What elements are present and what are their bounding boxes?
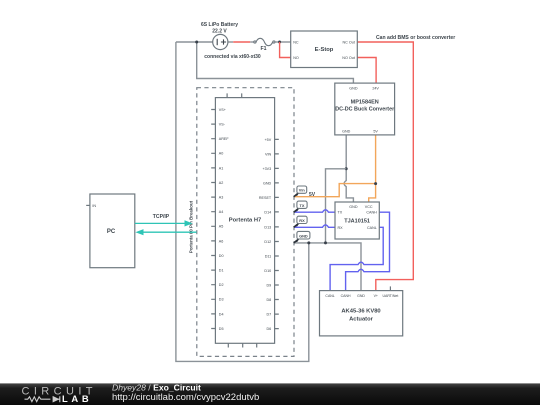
node: GND rail junction (outer loop) bbox=[307, 241, 310, 244]
actuator M1: AK45-36 KV80 bbox=[320, 286, 403, 336]
svg-text:A6: A6 bbox=[219, 239, 224, 243]
svg-text:NC: NC bbox=[293, 41, 299, 45]
svg-text:D6: D6 bbox=[266, 327, 271, 331]
E-Stop SW1 bbox=[291, 31, 358, 68]
svg-text:+5V: +5V bbox=[265, 138, 272, 142]
svg-text:D9: D9 bbox=[266, 283, 271, 287]
svg-text:A4: A4 bbox=[219, 210, 224, 214]
svg-text:GND: GND bbox=[299, 233, 308, 238]
wire: E-Stop NO Out to buck converter 24V (red) bbox=[357, 58, 376, 84]
wire: ground return outer loop (left side, bottom, up to GND rail) bbox=[176, 42, 309, 361]
svg-text:Actuator: Actuator bbox=[349, 317, 374, 323]
svg-text:CANL: CANL bbox=[325, 294, 334, 298]
svg-text:LAB: LAB bbox=[62, 393, 92, 404]
svg-text:VS+: VS+ bbox=[219, 108, 226, 112]
net flag GND / ground bbox=[294, 231, 310, 243]
svg-text:Can add BMS or boost converter: Can add BMS or boost converter bbox=[376, 35, 455, 41]
svg-text:D14: D14 bbox=[264, 210, 271, 214]
svg-text:Portenta H7: Portenta H7 bbox=[229, 218, 262, 224]
svg-text:IN: IN bbox=[92, 204, 96, 208]
svg-text:D3: D3 bbox=[219, 298, 224, 302]
wire: GND rail from GND flag to actuator GND bbox=[294, 243, 361, 291]
svg-text:TJA10151: TJA10151 bbox=[344, 218, 370, 224]
svg-text:D11: D11 bbox=[265, 254, 272, 258]
svg-text:A5: A5 bbox=[219, 225, 224, 229]
svg-text:CANH: CANH bbox=[366, 211, 377, 215]
svg-text:A1: A1 bbox=[219, 166, 224, 170]
arrow: PC to breakout (TCP/IP) bbox=[135, 220, 193, 226]
svg-text:GND: GND bbox=[263, 181, 272, 185]
svg-text:RX: RX bbox=[299, 218, 305, 223]
wire: battery positive to fuse F1 (red) bbox=[228, 41, 233, 43]
svg-text:A0: A0 bbox=[219, 152, 224, 156]
net flag Vin bbox=[294, 186, 307, 197]
svg-text:A2: A2 bbox=[219, 181, 224, 185]
node: GND rail junction (buck GND branch) bbox=[324, 241, 327, 244]
wire: battery negative to left rail bbox=[176, 41, 213, 43]
svg-text:VS-: VS- bbox=[219, 123, 226, 127]
svg-text:TX: TX bbox=[338, 211, 343, 215]
svg-text:AK45-36 KV80: AK45-36 KV80 bbox=[341, 309, 380, 315]
svg-text:PC: PC bbox=[107, 229, 116, 235]
svg-text:6S LiPo Battery: 6S LiPo Battery bbox=[201, 22, 238, 28]
buck converter U2: MP1584EN bbox=[335, 83, 395, 135]
svg-text:D10: D10 bbox=[264, 269, 271, 273]
net flag TX bbox=[294, 201, 307, 212]
svg-text:D0: D0 bbox=[219, 254, 224, 258]
svg-text:V+: V+ bbox=[374, 294, 378, 298]
svg-text:+3V3: +3V3 bbox=[262, 167, 271, 171]
Portenta H7 bottom pin stubs bbox=[228, 343, 256, 347]
svg-text:22.2 V: 22.2 V bbox=[212, 29, 227, 35]
svg-text:DC-DC Buck Converter: DC-DC Buck Converter bbox=[335, 106, 395, 112]
wire: TJA10151 CANL to actuator CANL (blue) bbox=[330, 227, 383, 290]
wire: buck GND branch left and down to GND rail bbox=[326, 169, 347, 243]
svg-text:24V: 24V bbox=[372, 86, 379, 90]
node: fuse output junction bbox=[278, 41, 281, 44]
Portenta H7 top pin stubs bbox=[227, 93, 242, 97]
svg-text:GND: GND bbox=[349, 205, 358, 209]
svg-text:RESET: RESET bbox=[259, 196, 272, 200]
svg-text:AREF: AREF bbox=[219, 137, 230, 141]
svg-text:TX: TX bbox=[300, 203, 305, 208]
wire: TX flag to TJA10151 TXD (blue, hop over grey) bbox=[294, 210, 335, 212]
svg-text:5V: 5V bbox=[373, 129, 378, 133]
wire: 5V to Vin flag (orange) bbox=[294, 184, 376, 197]
module boundary: Portenta 80 Pin Breakout (dashed) bbox=[197, 88, 294, 357]
Portenta H7 right pin labels bbox=[259, 138, 272, 331]
net flag RX bbox=[294, 216, 307, 227]
footer banner bbox=[0, 382, 540, 405]
wire: TJA10151 CANH to actuator CANH (blue) bbox=[346, 212, 390, 290]
wire: fuse output to E-Stop NO (red) bbox=[280, 42, 291, 58]
svg-text:D12: D12 bbox=[264, 240, 271, 244]
svg-text:E-Stop: E-Stop bbox=[315, 47, 334, 53]
svg-text:GND: GND bbox=[357, 294, 365, 298]
svg-text:D13: D13 bbox=[264, 225, 271, 229]
Portenta H7 left pin stubs bbox=[211, 110, 215, 329]
microcontroller U1: Portenta H7 bbox=[215, 98, 274, 344]
node: 5V junction bbox=[374, 182, 377, 185]
svg-text:NO: NO bbox=[293, 56, 299, 60]
node: buck GND junction bbox=[345, 167, 348, 170]
wire: fuse to E-Stop NC bbox=[275, 41, 291, 43]
svg-text:VIN: VIN bbox=[265, 152, 271, 156]
fuse F1 bbox=[254, 38, 275, 45]
svg-text:D2: D2 bbox=[219, 283, 224, 287]
svg-text:Dhyey28 / Exo_Circuit: Dhyey28 / Exo_Circuit bbox=[112, 382, 201, 392]
svg-text:5V: 5V bbox=[309, 192, 316, 198]
svg-text:Vin: Vin bbox=[299, 188, 306, 193]
svg-text:D5: D5 bbox=[219, 327, 224, 331]
CAN transceiver U3: TJA10151 bbox=[335, 202, 379, 239]
battery V1: 6S LiPo 22.2V bbox=[213, 34, 228, 49]
svg-text:RX: RX bbox=[338, 226, 344, 230]
svg-text:MP1584EN: MP1584EN bbox=[351, 99, 379, 105]
svg-text:D1: D1 bbox=[219, 269, 224, 273]
PC block bbox=[86, 194, 135, 268]
wire: 5V to TJA10151 VCC (orange) bbox=[369, 184, 376, 202]
svg-text:UART/Net: UART/Net bbox=[382, 294, 398, 298]
svg-text:A3: A3 bbox=[219, 196, 224, 200]
wire: buck converter 5V output down (orange) bbox=[375, 135, 377, 184]
svg-text:D8: D8 bbox=[266, 298, 271, 302]
wire: battery negative branch down to buck converter GND (top) bbox=[197, 42, 354, 83]
wire: buck converter GND (bottom) down, hop over 5V wire, to TJA10151 GND bbox=[344, 135, 353, 202]
svg-text:CANL: CANL bbox=[367, 226, 377, 230]
svg-text:D7: D7 bbox=[266, 313, 271, 317]
Portenta H7 left pin labels bbox=[219, 108, 230, 331]
svg-text:connected via xt60-xt30: connected via xt60-xt30 bbox=[204, 54, 261, 60]
svg-text:D4: D4 bbox=[219, 312, 224, 316]
svg-text:Portenta 80 Pin Breakout: Portenta 80 Pin Breakout bbox=[189, 200, 194, 253]
svg-text:CANH: CANH bbox=[341, 294, 351, 298]
svg-text:http://circuitlab.com/cvypcv22: http://circuitlab.com/cvypcv22dutvb bbox=[112, 392, 259, 403]
node: battery negative junction bbox=[195, 41, 198, 44]
Portenta H7 right pin stubs bbox=[275, 139, 279, 328]
svg-text:NO Out: NO Out bbox=[342, 56, 355, 60]
svg-text:VCC: VCC bbox=[365, 205, 373, 209]
svg-text:TCP/IP: TCP/IP bbox=[153, 214, 170, 220]
arrow: breakout to PC (TCP/IP) bbox=[135, 229, 196, 235]
svg-text:F1: F1 bbox=[260, 46, 266, 52]
wire: E-Stop NC Out to actuator V+ (red) bbox=[357, 42, 413, 291]
svg-text:GND: GND bbox=[349, 86, 358, 90]
wire: RX flag to TJA10151 RXD (blue, hop over grey) bbox=[294, 225, 335, 227]
svg-text:NC Out: NC Out bbox=[343, 41, 355, 45]
svg-text:GND: GND bbox=[342, 129, 351, 133]
